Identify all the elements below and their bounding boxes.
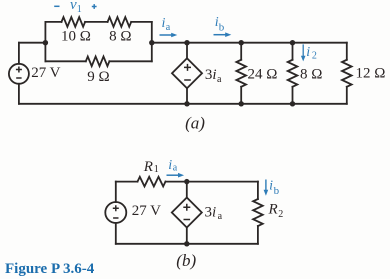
wire: (b) right edge top stub [257, 182, 259, 199]
resistor R2 (b) [253, 199, 263, 226]
label: plus sign of v1 annotation [92, 4, 97, 9]
node dot: 8 ohm top (a) [290, 40, 295, 45]
svg-text:a: a [218, 211, 223, 222]
wire: (a) 8 ohm bottom stub [292, 87, 294, 104]
label: minus sign of v1 annotation [54, 5, 59, 7]
resistor 10 ohm (a) [62, 17, 86, 27]
arrow: ib current arrow (a) [214, 34, 226, 36]
node dot A (a) [43, 40, 295, 107]
dependent source 3ia diamond (b) [172, 198, 202, 228]
svg-text:3i: 3i [205, 204, 217, 220]
resistor 8 ohm parallel (a) [288, 60, 298, 87]
svg-text:a: a [166, 22, 171, 33]
node dot: top node (b) [184, 179, 189, 247]
voltage source V1 27 V (a) [9, 64, 29, 84]
arrow: i2 current arrow (a) [302, 44, 304, 56]
svg-text:i: i [168, 158, 172, 173]
minus mark inside diamond (a) [184, 79, 191, 81]
svg-text:(a): (a) [185, 114, 205, 133]
node dot: dependent source bottom (a) [184, 101, 189, 106]
plus terminal of source V1 (a) [16, 64, 191, 80]
wire: (a) top branch left segment [45, 21, 61, 23]
wire: (a) right edge bottom stub [346, 87, 348, 104]
wire: (b) bottom rail [116, 243, 258, 245]
svg-text:R: R [268, 202, 278, 218]
svg-text:1: 1 [154, 164, 159, 175]
svg-text:8 Ω: 8 Ω [109, 29, 131, 45]
svg-text:10 Ω: 10 Ω [61, 29, 91, 45]
resistor R1 (b) [138, 177, 166, 187]
plus terminal of source (b) [113, 204, 191, 220]
voltage source 27 V (b) [105, 202, 126, 223]
arrow: ia current arrow (a) [54, 4, 305, 61]
wire: (b) dependent source bottom stub [186, 228, 188, 244]
wire: (a) middle branch right segment [109, 60, 151, 62]
svg-text:b: b [274, 185, 280, 197]
arrow: ib current arrow (b) [265, 180, 267, 191]
svg-text:i: i [306, 45, 310, 60]
svg-text:9 Ω: 9 Ω [87, 69, 109, 85]
resistor 24 ohm (a) [236, 60, 246, 87]
svg-text:24 Ω: 24 Ω [248, 66, 278, 82]
node dot: 24 ohm top (a) [239, 40, 244, 45]
minus terminal of source (b) [113, 217, 118, 219]
minus mark inside diamond (b) [184, 219, 191, 221]
wire: (b) left vertical below source [115, 223, 117, 244]
resistor 12 ohm (a) [342, 60, 352, 87]
svg-text:2: 2 [312, 51, 317, 62]
node dot: 24 ohm bottom (a) [239, 101, 244, 106]
svg-text:R: R [143, 159, 153, 175]
wire: (b) right edge bottom stub [257, 226, 259, 244]
value labels circuit (b) [132, 159, 284, 270]
wire: (a) 24 ohm bottom stub [240, 87, 242, 104]
wire: (a) right edge top stub [346, 43, 348, 60]
svg-text:(b): (b) [176, 251, 196, 270]
svg-text:27 V: 27 V [31, 65, 60, 81]
wire: (a) top branch middle segment [85, 21, 108, 23]
node dot B (a) [149, 40, 154, 45]
svg-text:b: b [219, 22, 225, 34]
wire: (a) 24 ohm top stub [240, 43, 242, 60]
wire: (a) main top rail from node B to right edge [152, 42, 347, 44]
wire: (b) dependent source top stub [186, 182, 188, 198]
wire: (a) left vertical above source V1 [18, 43, 20, 64]
wire: (a) middle branch left segment [45, 60, 85, 62]
svg-text:3i: 3i [205, 67, 217, 83]
svg-text:1: 1 [77, 4, 82, 15]
svg-text:Figure P 3.6-4: Figure P 3.6-4 [5, 261, 95, 277]
wire: (a) node A vertical branch link [44, 22, 46, 61]
node dot: dependent source top (a) [184, 40, 189, 45]
value labels circuit (a) [31, 29, 385, 133]
label: v1 polarity annotation (a) [70, 0, 317, 62]
resistor 9 ohm (a) [86, 57, 110, 67]
wire: (a) top-left horizontal from source top to node A [19, 42, 46, 44]
wire: (a) 8 ohm top stub [292, 43, 294, 60]
svg-text:2: 2 [278, 209, 283, 220]
wire: (b) left vertical above source [115, 182, 117, 202]
dependent source 3ia diamond (a) [172, 58, 202, 88]
wire: (b) top-left horizontal [116, 181, 138, 183]
node dot: 8 ohm bottom (a) [290, 101, 295, 106]
plus mark inside diamond (a) [184, 64, 191, 71]
wire: (b) top middle segment to node [166, 181, 258, 183]
svg-text:27 V: 27 V [132, 203, 161, 219]
wire: (a) node B vertical branch link [151, 22, 153, 61]
svg-text:12 Ω: 12 Ω [356, 66, 386, 82]
resistor 8 ohm top branch (a) [108, 17, 132, 27]
wire: (a) dependent source top stub [186, 43, 188, 59]
minus terminal of source V1 (a) [16, 77, 21, 79]
wire: (a) left vertical below source V1 [18, 84, 20, 104]
node dot: bottom node (b) [184, 241, 189, 246]
svg-text:a: a [173, 163, 178, 174]
arrow: ia current arrow (b) [167, 173, 269, 196]
wire: (a) top branch right segment [131, 21, 152, 23]
wire: (a) dependent source bottom stub [186, 88, 188, 104]
plus mark inside diamond (b) [183, 204, 190, 211]
svg-text:i: i [269, 179, 273, 194]
wire: (a) bottom rail [19, 103, 347, 105]
label: current ia (b) [168, 158, 279, 197]
svg-text:a: a [217, 74, 222, 85]
svg-text:8 Ω: 8 Ω [300, 67, 322, 83]
